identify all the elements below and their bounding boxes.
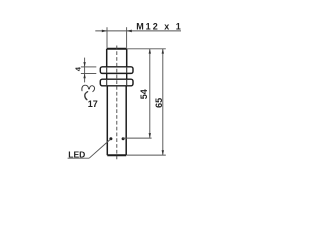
wrench icon bbox=[82, 85, 95, 100]
65 dimension line bbox=[162, 49, 164, 155]
svg-text:54: 54 bbox=[139, 89, 149, 99]
LED dot left bbox=[109, 137, 112, 140]
hex nut 1 bbox=[100, 67, 133, 74]
thread dim arrows bbox=[102, 30, 107, 33]
LED dot right bbox=[122, 137, 125, 140]
right side: top extension line bbox=[127, 48, 166, 50]
65 bottom extension line bbox=[127, 154, 166, 156]
center line (dash-dot) bbox=[116, 46, 118, 160]
svg-text:17: 17 bbox=[88, 99, 98, 109]
svg-text:65: 65 bbox=[154, 98, 164, 108]
lower tube body bbox=[107, 86, 126, 155]
54 bottom extension line bbox=[123, 137, 152, 139]
4mm dimension (nut thickness) bbox=[81, 58, 96, 83]
LED leader line bbox=[89, 139, 110, 158]
sensor barrel top section bbox=[107, 49, 127, 67]
thread dimension line bbox=[95, 27, 181, 48]
svg-text:M12 x 1: M12 x 1 bbox=[136, 21, 183, 31]
hex nut 2 bbox=[100, 79, 133, 86]
54 dimension line bbox=[149, 49, 151, 138]
barrel between nuts bbox=[107, 74, 127, 80]
